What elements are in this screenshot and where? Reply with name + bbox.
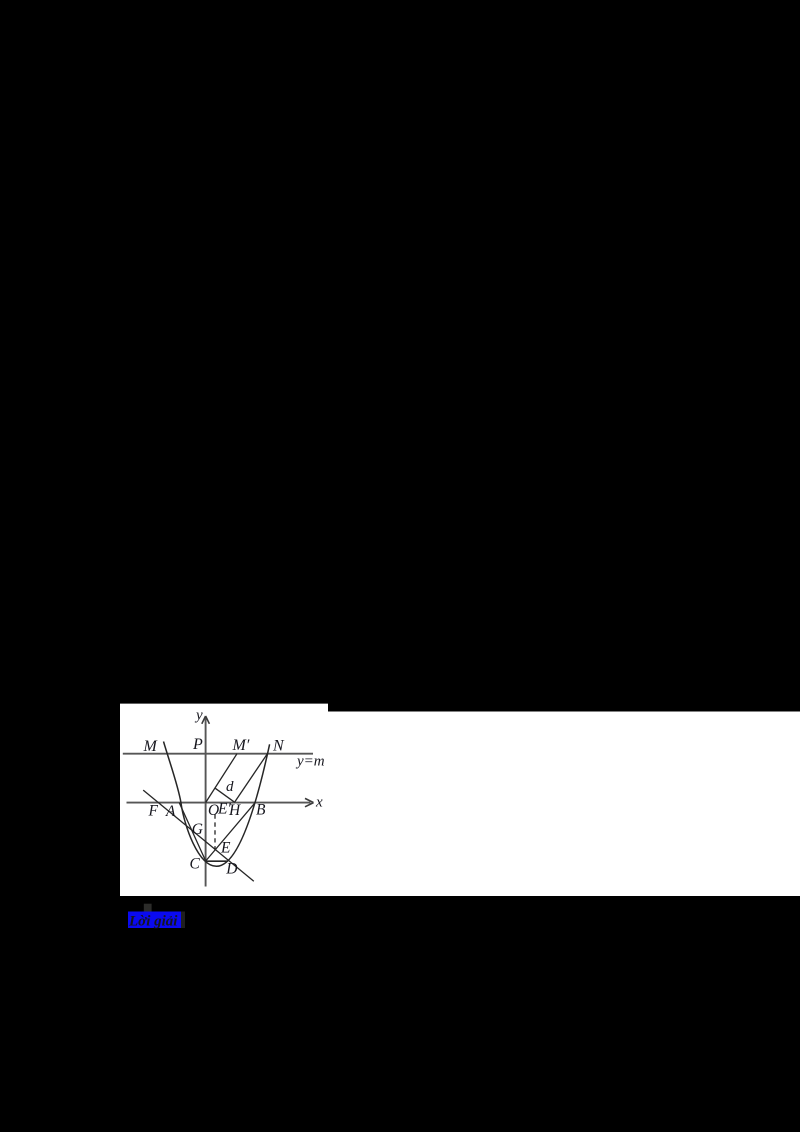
svg-text:B: B (256, 802, 266, 819)
svg-text:y: y (194, 708, 203, 724)
svg-text:D: D (225, 861, 237, 878)
svg-text:F: F (148, 803, 159, 820)
svg-text:H: H (228, 802, 241, 819)
svg-text:C: C (190, 856, 201, 873)
svg-text:A: A (165, 803, 176, 820)
svg-text:M′: M′ (232, 737, 250, 754)
svg-text:Lời giải: Lời giải (128, 914, 178, 930)
svg-text:x: x (315, 795, 323, 811)
svg-text:y=m: y=m (295, 754, 325, 770)
svg-text:N: N (272, 738, 285, 755)
svg-text:d: d (226, 779, 234, 795)
svg-text:E: E (220, 840, 231, 857)
svg-text:G: G (192, 821, 203, 838)
svg-text:P: P (192, 736, 203, 753)
svg-text:M: M (143, 738, 159, 755)
